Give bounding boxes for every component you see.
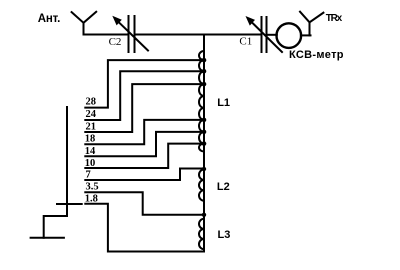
C2 arrowhead — [112, 16, 122, 26]
svg-text:10: 10 — [85, 158, 96, 169]
tap 18 — [85, 120, 204, 144]
svg-text:TRx: TRx — [326, 13, 343, 24]
svg-text:L1: L1 — [217, 97, 230, 109]
junction node 21 — [202, 82, 207, 87]
wire SWR meter to TRx — [301, 34, 311, 36]
svg-text:Ант.: Ант. — [38, 13, 61, 25]
svg-text:3.5: 3.5 — [86, 182, 99, 193]
svg-text:L3: L3 — [218, 229, 231, 241]
svg-text:7: 7 — [86, 169, 91, 180]
antenna symbol Ант — [72, 12, 97, 35]
switch wiper vertical — [66, 107, 68, 216]
svg-text:C1: C1 — [239, 36, 252, 48]
tap 14 — [85, 132, 204, 156]
capacitor C2 plates — [129, 16, 135, 52]
tap 24 — [85, 71, 204, 120]
coil spine — [203, 35, 205, 252]
capacitor C1 arrow shaft — [251, 22, 282, 53]
svg-text:C2: C2 — [109, 36, 122, 48]
junction node 18 — [202, 118, 207, 123]
inductor L3 loops — [199, 219, 204, 249]
switch step to ground — [44, 216, 67, 238]
junction node 7 — [202, 167, 206, 171]
junction node 28 — [202, 58, 207, 63]
svg-text:КСВ-метр: КСВ-метр — [289, 49, 344, 61]
wire C1 to SWR meter — [268, 34, 277, 36]
junction node 14 — [202, 130, 207, 135]
svg-text:18: 18 — [85, 134, 96, 145]
svg-text:L2: L2 — [217, 181, 230, 193]
svg-text:14: 14 — [85, 146, 96, 157]
tap 7 — [85, 169, 204, 181]
tap 21 — [85, 84, 204, 132]
tap 3.5 — [85, 192, 204, 215]
inductor L2 loops — [199, 170, 204, 201]
switch crossbar contact — [57, 203, 82, 205]
junction node 24 — [202, 69, 207, 74]
tap 1.8 + bottom wire to coil end — [85, 204, 204, 252]
junction node 10 — [202, 141, 207, 146]
svg-text:28: 28 — [86, 96, 97, 107]
tap 28: underline, riser, horizontal to coil — [85, 60, 204, 108]
antenna symbol TRx — [300, 12, 323, 36]
wire antenna to C2 — [84, 34, 128, 36]
wire C2 to C1 (through coil top node) — [136, 34, 261, 36]
C1 arrowhead — [246, 16, 256, 26]
capacitor C1 plates — [262, 17, 267, 52]
junction node 3.5 — [202, 213, 206, 217]
capacitor C2 arrow shaft — [118, 22, 148, 51]
ground bar — [31, 237, 64, 239]
svg-text:24: 24 — [86, 109, 97, 120]
tap 10 — [85, 144, 204, 168]
inductor L1 loops — [199, 51, 204, 152]
SWR meter circle — [277, 23, 302, 48]
svg-text:21: 21 — [86, 121, 97, 132]
svg-text:1.8: 1.8 — [85, 194, 98, 205]
